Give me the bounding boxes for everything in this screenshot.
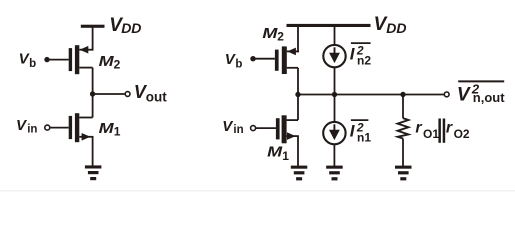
label VDD (left) (109, 15, 141, 36)
svg-text:out: out (146, 90, 167, 105)
wire output node to Vout terminal (93, 93, 126, 95)
svg-text:DD: DD (121, 20, 141, 36)
label M1 (right) (267, 144, 289, 163)
terminal Vnout open circle (444, 92, 449, 97)
transistor M1 (right NMOS) (276, 115, 299, 143)
transistor M1 (left NMOS) (69, 113, 94, 142)
ground (In1) (326, 166, 343, 181)
label Vnout squared with overline (457, 81, 505, 105)
wire resistor to ground (402, 139, 404, 167)
svg-text:r: r (415, 120, 422, 137)
wire node row to In1 (334, 95, 336, 123)
wire VDD to M2 source (left) (92, 26, 94, 50)
ground (left circuit) (85, 165, 102, 180)
ground (right M1) (291, 166, 308, 181)
wire In2 to node row (334, 67, 336, 95)
wire node row to resistor (402, 95, 404, 119)
terminal Vin open circle (right) (251, 126, 256, 131)
label VDD (right) (374, 14, 407, 36)
wire M2 drain to output node (left) (92, 68, 94, 94)
wire M1 source to ground (left) (92, 137, 94, 167)
terminal Vout open circle (125, 92, 130, 97)
wire node row horizontal (298, 94, 444, 96)
svg-text:n,out: n,out (473, 90, 505, 105)
bottom page rule (0, 190, 515, 191)
wire Vb to M2 gate (left) (47, 59, 69, 61)
svg-text:M: M (267, 144, 283, 161)
svg-text:1: 1 (114, 124, 121, 138)
node dot Vb terminal (right) (250, 56, 255, 61)
label M1 (left) (99, 120, 121, 138)
wire M1 source to ground (right) (297, 136, 299, 166)
svg-text:V: V (457, 84, 471, 105)
wire Vin to M1 gate (left) (50, 127, 69, 129)
transistor M2 (left PMOS) (69, 45, 94, 74)
label Vb (left) (19, 51, 37, 70)
power VDD bar (left) (81, 25, 105, 28)
svg-text:M: M (99, 53, 115, 70)
svg-text:in: in (233, 124, 243, 136)
svg-text:1: 1 (282, 149, 289, 163)
svg-text:M: M (99, 120, 115, 137)
svg-text:in: in (27, 123, 37, 135)
node junction dot In-column (332, 92, 337, 97)
current source In2 (323, 45, 345, 67)
label In1 squared with overline (350, 120, 372, 144)
ground (resistor) (395, 166, 412, 181)
wire node row to M1 drain (right) (297, 95, 299, 121)
svg-text:2: 2 (277, 30, 284, 44)
svg-text:DD: DD (386, 20, 406, 36)
label Vin (left) (16, 117, 37, 135)
svg-text:b: b (235, 59, 242, 71)
label M2 (right) (262, 25, 284, 44)
node output junction dot (left) (90, 91, 95, 96)
wire M1 drain up to output node (left) (92, 94, 94, 118)
svg-text:2: 2 (114, 57, 121, 71)
wire M2 drain to node row (right) (297, 68, 299, 95)
wire In1 to ground (333, 144, 335, 167)
wire VDD rail to M2 source (right) (297, 26, 299, 53)
node dot Vb terminal (left) (44, 57, 49, 62)
resistor rO1 parallel rO2 (398, 118, 409, 138)
wire Vb to M2 gate (right) (253, 58, 275, 60)
svg-text:M: M (262, 25, 278, 42)
svg-text:n2: n2 (357, 53, 371, 67)
label Vin (right) (222, 118, 243, 136)
label In2 squared with overline (350, 43, 372, 67)
current source In1 (323, 122, 345, 144)
transistor M2 (right PMOS) (275, 46, 299, 74)
svg-text:O2: O2 (454, 127, 470, 141)
label Vb (right) (225, 51, 243, 70)
node junction dot resistor-column (400, 92, 405, 97)
label M2 (left) (99, 53, 121, 71)
terminal Vin open circle (left) (45, 125, 50, 130)
wire Vin to M1 gate (right) (256, 127, 276, 129)
svg-text:O1: O1 (423, 127, 439, 141)
power VDD rail (right) (287, 24, 371, 27)
node junction dot M-column (295, 92, 300, 97)
svg-text:n1: n1 (357, 130, 371, 144)
svg-text:b: b (29, 58, 36, 70)
label rO1 parallel rO2 (415, 119, 470, 143)
label Vout (134, 82, 167, 105)
svg-text:r: r (446, 120, 453, 137)
wire VDD rail to In2 source (334, 26, 336, 46)
